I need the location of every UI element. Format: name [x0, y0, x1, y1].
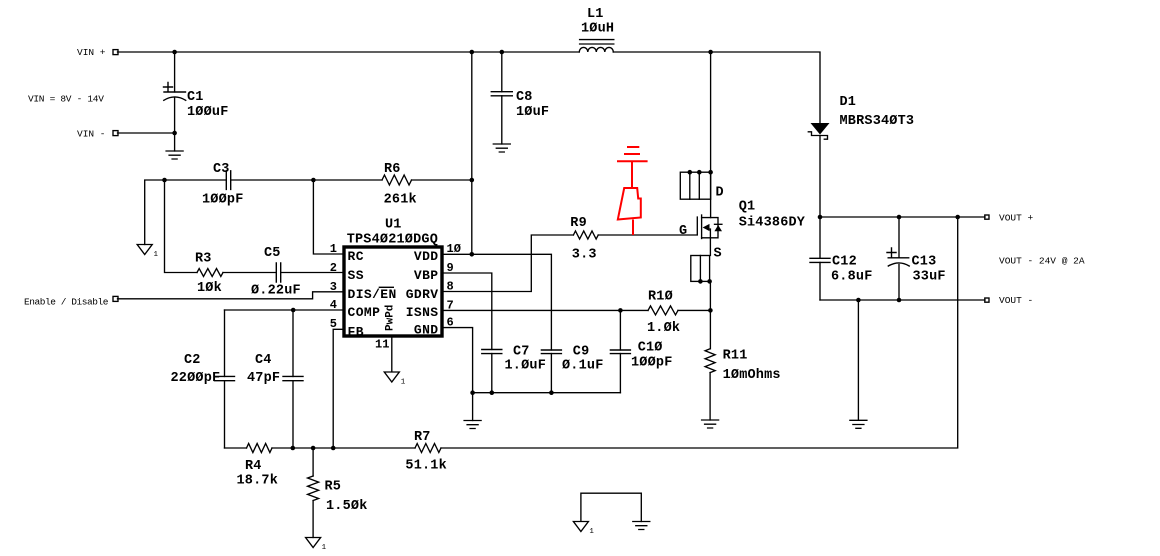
- svg-text:2: 2: [330, 261, 337, 275]
- svg-text:6: 6: [447, 316, 454, 330]
- svg-text:VBP: VBP: [414, 268, 439, 283]
- svg-text:6.8uF: 6.8uF: [831, 270, 873, 285]
- ground triangle pin11: [384, 372, 399, 382]
- svg-text:18.7k: 18.7k: [237, 474, 279, 489]
- svg-text:1ØmOhms: 1ØmOhms: [723, 368, 781, 383]
- svg-text:R6: R6: [384, 162, 401, 177]
- svg-text:R1Ø: R1Ø: [648, 290, 673, 305]
- capacitor C7: [482, 350, 502, 354]
- svg-text:VIN = 8V - 14V: VIN = 8V - 14V: [28, 94, 104, 105]
- ground triangle below R5: [306, 538, 321, 548]
- svg-text:C1Ø: C1Ø: [638, 341, 663, 356]
- wire pin3 DIS/EN to Enable/Disable terminal: [118, 292, 345, 299]
- wire C12 branch: [819, 217, 821, 300]
- svg-text:R4: R4: [245, 459, 262, 474]
- svg-text:33uF: 33uF: [913, 270, 946, 285]
- svg-text:1: 1: [589, 528, 594, 536]
- svg-text:Q1: Q1: [739, 200, 756, 215]
- wire C10 branch: [619, 310, 621, 392]
- junction FB row x R5: [311, 446, 316, 451]
- svg-text:47pF: 47pF: [247, 371, 280, 386]
- capacitor C13: [887, 248, 909, 266]
- svg-text:4: 4: [330, 298, 337, 312]
- svg-text:VIN +: VIN +: [77, 47, 106, 58]
- svg-text:C13: C13: [912, 255, 937, 270]
- svg-text:L1: L1: [587, 7, 604, 22]
- svg-text:C3: C3: [213, 162, 230, 177]
- svg-text:C7: C7: [513, 345, 530, 360]
- capacitor C2: [215, 376, 235, 380]
- svg-text:C5: C5: [264, 246, 281, 261]
- resistor R11: [705, 349, 715, 373]
- junction VOUT+ x C12/D1: [818, 215, 823, 220]
- junction gnd row x C9: [549, 390, 554, 395]
- wire top rail L1 to D1 corner: [613, 52, 820, 123]
- red test probe: [617, 147, 648, 235]
- svg-text:C2: C2: [184, 353, 201, 368]
- junction rail x VDD bus: [470, 50, 475, 55]
- svg-text:1: 1: [330, 242, 337, 256]
- terminal Enable/Disable: [113, 296, 118, 301]
- capacitor C9: [541, 350, 561, 354]
- svg-text:C8: C8: [516, 90, 533, 105]
- svg-text:1ØØpF: 1ØØpF: [202, 193, 244, 208]
- junction source box pin a: [698, 279, 703, 284]
- svg-text:1: 1: [322, 544, 327, 552]
- svg-text:7: 7: [447, 298, 454, 312]
- diode D1 schottky cathode: [808, 132, 827, 139]
- svg-text:DIS/EN: DIS/EN: [348, 287, 397, 302]
- svg-text:3.3: 3.3: [572, 248, 597, 263]
- wire C2 branch: [224, 310, 226, 448]
- wire C13 branch: [898, 217, 900, 300]
- svg-text:3: 3: [330, 280, 337, 294]
- svg-text:261k: 261k: [384, 193, 417, 208]
- svg-text:1: 1: [401, 379, 406, 387]
- junction FB row x FB wire: [331, 446, 336, 451]
- svg-text:1ØØuF: 1ØØuF: [187, 105, 229, 120]
- junction ISNS row x C10: [618, 308, 623, 313]
- svg-text:22ØØpF: 22ØØpF: [171, 371, 221, 386]
- wire pin4 COMP row: [225, 309, 345, 311]
- resistor R6: [382, 175, 412, 185]
- ground below R11: [702, 420, 719, 428]
- wire C1 branch and VIN- row: [118, 52, 175, 151]
- resistor R7: [415, 444, 441, 453]
- junction VOUT+ x feedback: [955, 215, 960, 220]
- junction VOUT+ x C13: [897, 215, 902, 220]
- junction gnd row x pin6: [470, 390, 475, 395]
- svg-text:R7: R7: [414, 430, 431, 445]
- wire pin10 VDD to C9: [442, 254, 551, 392]
- wire pin7 ISNS row to R10: [442, 309, 710, 311]
- svg-text:C12: C12: [832, 255, 857, 270]
- junction rail x drain: [708, 50, 713, 55]
- svg-text:D: D: [716, 186, 724, 201]
- wire VOUT- row: [820, 299, 985, 301]
- wire feedback bottom row to VOUT+: [225, 217, 958, 448]
- svg-text:C9: C9: [573, 345, 590, 360]
- wire source line down to R11: [709, 238, 711, 420]
- resistor R10: [648, 306, 678, 315]
- terminal VOUT+: [985, 215, 989, 219]
- resistor R4: [247, 444, 273, 453]
- wire VIN+ top rail: [118, 51, 580, 53]
- svg-text:Ø.1uF: Ø.1uF: [562, 359, 604, 374]
- svg-text:1ØØpF: 1ØØpF: [631, 356, 673, 371]
- svg-text:Ø.22uF: Ø.22uF: [251, 284, 301, 299]
- svg-text:5: 5: [330, 317, 337, 331]
- junction drain box pin a: [688, 170, 693, 175]
- svg-text:S: S: [714, 247, 722, 262]
- svg-text:ISNS: ISNS: [406, 305, 439, 320]
- ground below C8: [493, 144, 510, 152]
- wire VOUT- ground tap: [857, 300, 859, 420]
- junction C3 row x pin1 wire: [311, 178, 316, 183]
- svg-text:1.5Øk: 1.5Øk: [326, 499, 368, 514]
- svg-text:Si4386DY: Si4386DY: [739, 216, 806, 231]
- wire capacitor bottom ground row: [473, 392, 621, 394]
- wire ground tie net: [581, 493, 641, 521]
- svg-text:VOUT -: VOUT -: [999, 295, 1033, 306]
- svg-text:PwPd: PwPd: [385, 305, 397, 331]
- svg-text:G: G: [679, 224, 687, 239]
- svg-text:FB: FB: [348, 324, 364, 339]
- svg-text:R3: R3: [195, 252, 212, 267]
- svg-text:R11: R11: [723, 349, 748, 364]
- junction gnd row x C7: [490, 390, 495, 395]
- svg-text:Enable / Disable: Enable / Disable: [24, 297, 109, 308]
- diode D1: [811, 123, 830, 135]
- ground triangle at C3 row: [137, 245, 152, 255]
- overline on EN: [379, 286, 394, 288]
- svg-text:11: 11: [375, 338, 389, 352]
- ground triangle at tie: [573, 522, 588, 532]
- Q1 body arrow: [703, 224, 710, 231]
- svg-text:COMP: COMP: [348, 305, 381, 320]
- svg-text:R9: R9: [570, 216, 587, 231]
- junction VIN- x C1: [172, 131, 177, 136]
- svg-text:RC: RC: [348, 249, 364, 264]
- wire C3/R6 row with corner to ground triangle: [145, 180, 472, 245]
- junction source box pin b: [707, 279, 712, 284]
- junction VIN+ rail x C1: [172, 50, 177, 55]
- ground below VOUT-: [850, 420, 867, 428]
- transistor Q1 MOSFET symbol: [697, 215, 722, 239]
- terminal VOUT-: [985, 298, 989, 302]
- wire drain line from top rail: [710, 52, 712, 218]
- wire pin1 RC to C3 row: [313, 180, 344, 254]
- svg-text:8: 8: [447, 280, 454, 294]
- capacitor C10: [610, 350, 630, 354]
- svg-text:1ØuH: 1ØuH: [581, 22, 614, 37]
- svg-text:VIN -: VIN -: [77, 129, 106, 140]
- wire C4 branch: [292, 310, 294, 448]
- svg-text:R5: R5: [325, 480, 342, 495]
- svg-text:U1: U1: [385, 218, 402, 233]
- capacitor C3: [226, 171, 230, 190]
- inductor L1: [579, 40, 614, 52]
- junction C3 row x R3 branch: [162, 178, 167, 183]
- svg-text:1Øk: 1Øk: [197, 281, 222, 296]
- capacitor C4: [283, 376, 303, 380]
- svg-text:1Ø: 1Ø: [447, 242, 461, 256]
- junction ISNS row x source line: [708, 308, 713, 313]
- wire VDD bus: [471, 52, 473, 254]
- svg-text:1.Øk: 1.Øk: [647, 321, 680, 336]
- wire pin9 VBP to C7: [442, 273, 492, 393]
- junction rail x C8: [500, 50, 505, 55]
- resistor R5: [308, 476, 319, 501]
- junction VDD pin10 x bus: [470, 252, 475, 257]
- junction FB row x C4: [291, 446, 296, 451]
- svg-text:VOUT +: VOUT +: [999, 213, 1034, 224]
- capacitor C8: [491, 92, 512, 96]
- svg-text:C4: C4: [255, 353, 272, 368]
- wire C8 branch: [501, 52, 503, 144]
- capacitor C1: [164, 83, 186, 101]
- svg-text:SS: SS: [348, 268, 364, 283]
- svg-text:1ØuF: 1ØuF: [516, 105, 549, 120]
- wire D1 to VOUT+ row: [820, 136, 985, 218]
- svg-text:51.1k: 51.1k: [405, 459, 447, 474]
- junction drain box pin b: [697, 170, 702, 175]
- wire pin11 stub: [391, 336, 393, 371]
- wire R5 branch: [312, 448, 314, 538]
- junction VOUT- x C13: [897, 298, 902, 303]
- source pins box Q1: [691, 256, 710, 282]
- capacitor C12: [810, 258, 830, 262]
- svg-text:VOUT - 24V @ 2A: VOUT - 24V @ 2A: [999, 256, 1085, 267]
- svg-text:MBRS34ØT3: MBRS34ØT3: [840, 114, 915, 129]
- ground 3-bar at tie: [633, 522, 650, 530]
- terminal VIN+: [113, 50, 118, 55]
- junction drain box pin c: [708, 170, 713, 175]
- svg-text:VDD: VDD: [414, 249, 439, 264]
- svg-text:9: 9: [447, 261, 454, 275]
- wire pin5 FB down to feedback row: [333, 329, 344, 448]
- resistor R9: [573, 231, 598, 239]
- svg-text:TPS4Ø21ØDGQ: TPS4Ø21ØDGQ: [347, 233, 438, 248]
- ground below pin6 row: [464, 421, 481, 429]
- terminal VIN-: [113, 131, 118, 136]
- capacitor C5: [276, 263, 280, 282]
- junction COMP row x C4: [291, 308, 296, 313]
- resistor R3: [197, 269, 223, 277]
- svg-text:1: 1: [154, 251, 159, 259]
- svg-text:1.ØuF: 1.ØuF: [505, 359, 547, 374]
- svg-text:D1: D1: [840, 95, 857, 110]
- Q1 body diode: [714, 225, 722, 231]
- wire pin8 GDRV up to R9 row and to gate: [442, 235, 697, 292]
- wire R3/C5 row: [165, 180, 345, 273]
- IC U1 TPS40210DGQ body: [344, 247, 442, 336]
- drain pins box Q1: [680, 172, 710, 199]
- junction R6 x VDD bus: [470, 178, 475, 183]
- junction VOUT- x gnd tap: [856, 298, 861, 303]
- wire pin6 GND down to cap ground row: [442, 328, 473, 421]
- ground below C1: [166, 151, 183, 159]
- svg-text:GDRV: GDRV: [406, 287, 439, 302]
- svg-text:GND: GND: [414, 323, 439, 338]
- svg-text:C1: C1: [187, 90, 204, 105]
